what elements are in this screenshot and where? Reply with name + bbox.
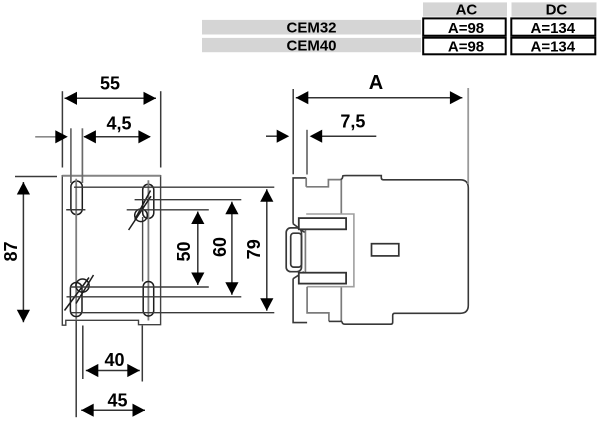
svg-text:7,5: 7,5 xyxy=(340,111,365,131)
table header cell DC xyxy=(512,2,597,16)
svg-text:4,5: 4,5 xyxy=(106,114,131,134)
extension for 45 dim below plate xyxy=(75,320,77,417)
table header cell AC xyxy=(423,2,507,16)
extension line 50 top xyxy=(127,209,209,211)
dimension 79 vertical xyxy=(266,189,268,311)
plate right edge segments (gray) xyxy=(305,178,307,187)
svg-text:AC: AC xyxy=(456,1,478,18)
dimension 55 top xyxy=(61,91,63,167)
svg-text:55: 55 xyxy=(100,74,120,94)
svg-text:40: 40 xyxy=(104,350,124,370)
screw circle of bottom-left hole xyxy=(76,279,89,292)
svg-text:A=134: A=134 xyxy=(530,38,575,55)
dimension 60 vertical xyxy=(231,202,233,295)
dimension 7,5 xyxy=(266,135,279,137)
mounting slot bottom-right xyxy=(143,282,154,317)
center line of right slots (continuous) xyxy=(147,180,149,320)
label window on body xyxy=(372,244,399,256)
slash marks of top-right hole xyxy=(129,196,151,230)
table cell CEM32 AC value A=98 xyxy=(423,18,506,35)
side view mounting plate xyxy=(293,178,306,224)
front view mounting plate outline xyxy=(62,176,160,326)
bottom bar of clip block xyxy=(299,273,346,284)
svg-text:DC: DC xyxy=(546,1,568,18)
side view top step lines xyxy=(306,180,340,187)
side view block behind clip xyxy=(306,214,354,287)
mounting slot top-left xyxy=(71,181,82,215)
table cell CEM40 AC value A=98 xyxy=(423,38,506,55)
extension line 79 bottom xyxy=(70,312,274,314)
mounting slot bottom-left xyxy=(70,283,82,317)
extension line 60 bottom xyxy=(67,296,242,298)
top bar of clip block xyxy=(299,218,346,229)
svg-text:A=134: A=134 xyxy=(530,20,575,37)
svg-text:45: 45 xyxy=(107,391,127,411)
dimension 45 bottom xyxy=(81,409,145,411)
plate top edge (gray heavier) xyxy=(62,175,160,177)
svg-text:A: A xyxy=(369,72,383,94)
extension line 50 bottom xyxy=(70,286,209,288)
svg-text:87: 87 xyxy=(1,241,21,261)
center line of left slots (continuous) xyxy=(75,179,77,321)
extension line 79 top xyxy=(74,186,274,188)
screw circle of top-right hole xyxy=(135,209,148,222)
DIN rail clip outer xyxy=(286,228,301,272)
svg-text:CEM40: CEM40 xyxy=(286,38,336,55)
table row CEM32 label xyxy=(202,20,421,35)
svg-text:A=98: A=98 xyxy=(448,20,484,37)
connector line between right slots xyxy=(142,217,144,282)
side view bottom step lines xyxy=(307,287,329,322)
mounting slot top-right xyxy=(143,184,154,218)
svg-text:79: 79 xyxy=(244,239,264,259)
dimension 87 left xyxy=(15,176,57,178)
dimension A xyxy=(292,89,294,174)
clip chamfer bottom xyxy=(293,272,304,279)
DIN rail clip inner xyxy=(291,233,302,267)
extension line 60 top xyxy=(135,199,242,201)
dimension 40 bottom xyxy=(82,326,84,380)
dimension 50 vertical xyxy=(197,212,199,286)
table cell CEM32 DC value A=134 xyxy=(511,18,595,35)
side view body outline xyxy=(342,176,468,325)
table cell CEM40 DC value A=134 xyxy=(511,38,595,55)
tangent tick across top-left slot xyxy=(66,209,85,211)
side view body left edge (gray) xyxy=(340,180,342,214)
dimension 4,5 slot width xyxy=(70,128,72,183)
svg-text:60: 60 xyxy=(210,237,230,257)
svg-text:A=98: A=98 xyxy=(448,38,484,55)
slash marks of bottom-left hole xyxy=(65,278,90,311)
svg-text:50: 50 xyxy=(174,241,194,261)
svg-text:CEM32: CEM32 xyxy=(286,19,336,36)
table row CEM40 label xyxy=(202,38,421,52)
clip chamfer top xyxy=(293,224,305,233)
